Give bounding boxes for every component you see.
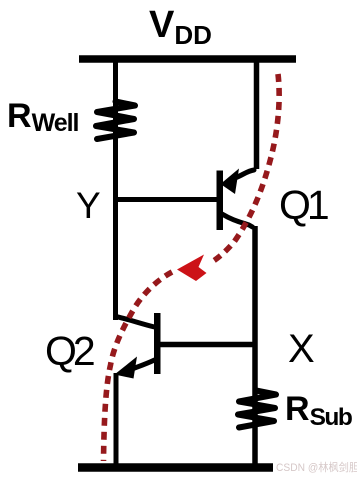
- wire: node X horizontal from Q2 base to right vertical: [159, 342, 256, 348]
- transistor Q1 (PNP) base bar: [217, 171, 224, 231]
- Q1 emitter arrow (PNP, pointing into base): [221, 169, 240, 195]
- watermark: [276, 459, 357, 475]
- ground rail: [78, 463, 273, 472]
- Q2 emitter arrow (NPN, pointing away from base): [115, 357, 138, 379]
- label R_Well: [7, 97, 79, 138]
- label Q2: [45, 328, 92, 375]
- red dashed latch-up current path (upper segment): [210, 74, 279, 263]
- VDD rail: [79, 55, 296, 63]
- Q2 emitter wire: [132, 360, 155, 369]
- label Q1: [279, 182, 326, 229]
- red current arrow: [177, 255, 207, 282]
- label node X: [288, 327, 315, 372]
- transistor Q2 (NPN) base bar: [154, 313, 161, 374]
- wire: right vertical from Q1 collector through node X and R_Sub to ground rail: [252, 226, 258, 467]
- Q2 collector wire: [116, 317, 155, 328]
- wire: left vertical from Q2 emitter to ground rail: [114, 373, 119, 467]
- Q1 collector wire: [222, 214, 253, 227]
- label R_Sub: [285, 390, 351, 432]
- label node Y: [76, 185, 101, 227]
- resistor R_Sub: [238, 391, 276, 428]
- label VDD: [149, 4, 212, 51]
- Q1 emitter wire: [235, 170, 254, 178]
- wire: right vertical from VDD rail to Q1 emitter: [254, 60, 260, 169]
- wire: left vertical from VDD rail through R_Well to node Y and Q2 collector: [113, 60, 118, 320]
- resistor R_Well: [96, 102, 135, 140]
- red dashed latch-up current path (lower segment): [104, 272, 173, 461]
- wire: node Y horizontal to Q1 base: [113, 197, 219, 202]
